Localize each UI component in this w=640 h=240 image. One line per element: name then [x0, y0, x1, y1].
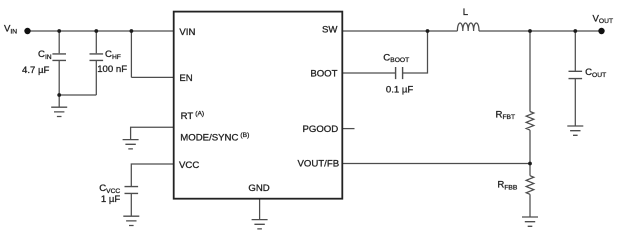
- junction RFBT top: [528, 29, 532, 33]
- junction input ground: [57, 93, 61, 97]
- ground GND pin: [252, 220, 268, 229]
- wire RFBT bottom to FB node: [529, 130, 531, 163]
- svg-text:SW: SW: [322, 24, 338, 35]
- wire inductor to VOUT terminal: [479, 30, 602, 32]
- wire ground stem input: [58, 95, 60, 107]
- svg-text:PGOOD: PGOOD: [302, 124, 338, 135]
- svg-text:1 µF: 1 µF: [101, 194, 121, 205]
- wire SW rail to inductor: [342, 30, 457, 32]
- ground COUT: [567, 126, 583, 135]
- svg-text:EN: EN: [179, 73, 192, 84]
- junction CHF: [94, 29, 98, 33]
- capacitor CVCC plates: [125, 187, 139, 194]
- capacitor CVCC bottom stem: [130, 194, 132, 217]
- capacitor CBOOT plates: [396, 67, 403, 79]
- ground CVCC: [123, 216, 139, 225]
- junction EN drop: [130, 29, 134, 33]
- capacitor CIN stems: [58, 31, 60, 95]
- junction CIN: [57, 29, 61, 33]
- wire FB node to RFBB: [529, 164, 531, 176]
- wire VCC to CVCC: [131, 164, 173, 187]
- wire PGOOD stub: [342, 128, 354, 130]
- junction FB node: [528, 162, 532, 166]
- svg-text:BOOT: BOOT: [310, 69, 337, 80]
- ground MODE/SYNC: [123, 140, 139, 149]
- wire input caps bottom bus: [59, 94, 96, 96]
- wire EN horizontal to pin EN: [131, 76, 173, 78]
- svg-text:GND: GND: [248, 183, 269, 194]
- svg-text:0.1 µF: 0.1 µF: [386, 85, 414, 96]
- wire COUT bottom stem: [574, 79, 576, 126]
- IC U1 box: [174, 12, 343, 199]
- resistor RFBT: [526, 112, 534, 131]
- svg-text:VCC: VCC: [179, 160, 199, 171]
- svg-text:VOUT/FB: VOUT/FB: [298, 159, 340, 170]
- junction SW boot: [426, 29, 430, 33]
- ground input caps: [51, 107, 67, 116]
- wire input rail VIN: [28, 30, 174, 32]
- svg-text:VIN: VIN: [179, 27, 195, 38]
- ground RFBB: [522, 217, 538, 226]
- capacitor COUT plates: [569, 71, 583, 78]
- inductor L: [457, 23, 479, 31]
- terminal dot VIN: [24, 28, 30, 34]
- capacitor CIN plates: [52, 54, 66, 61]
- wire GND pin stem: [259, 199, 261, 220]
- capacitor CHF plates: [90, 54, 104, 61]
- wire BOOT right lead and riser to SW: [403, 31, 428, 73]
- capacitor CHF stems: [95, 31, 97, 95]
- svg-text:100 nF: 100 nF: [97, 64, 127, 75]
- wire MODE/SYNC to ground: [131, 127, 173, 139]
- wire RFBB to ground: [529, 194, 531, 217]
- svg-text:4.7 µF: 4.7 µF: [22, 65, 50, 76]
- wire COUT top stem: [574, 31, 576, 71]
- terminal dot VOUT: [598, 28, 604, 34]
- svg-text:L: L: [463, 7, 469, 18]
- wire VOUT drop to RFBT: [529, 31, 531, 112]
- wire BOOT left lead: [342, 72, 395, 74]
- junction COUT: [573, 29, 577, 33]
- wire EN drop vertical: [130, 31, 132, 77]
- wire VOUT/FB feedback: [342, 163, 530, 165]
- resistor RFBB: [526, 176, 534, 195]
